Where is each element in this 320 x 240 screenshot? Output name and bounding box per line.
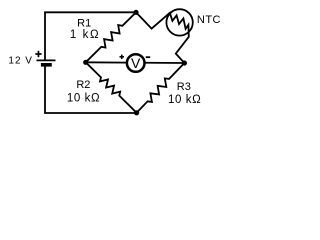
svg-text:V: V	[131, 55, 141, 71]
svg-text:10 kΩ: 10 kΩ	[67, 93, 100, 105]
svg-text:R1: R1	[77, 18, 91, 30]
svg-text:R3: R3	[177, 81, 191, 93]
svg-text:R2: R2	[76, 79, 90, 91]
svg-text:10 kΩ: 10 kΩ	[168, 94, 201, 106]
svg-text:12 V: 12 V	[8, 56, 33, 67]
svg-text:1 kΩ: 1 kΩ	[70, 29, 100, 41]
svg-text:NTC: NTC	[197, 14, 221, 26]
